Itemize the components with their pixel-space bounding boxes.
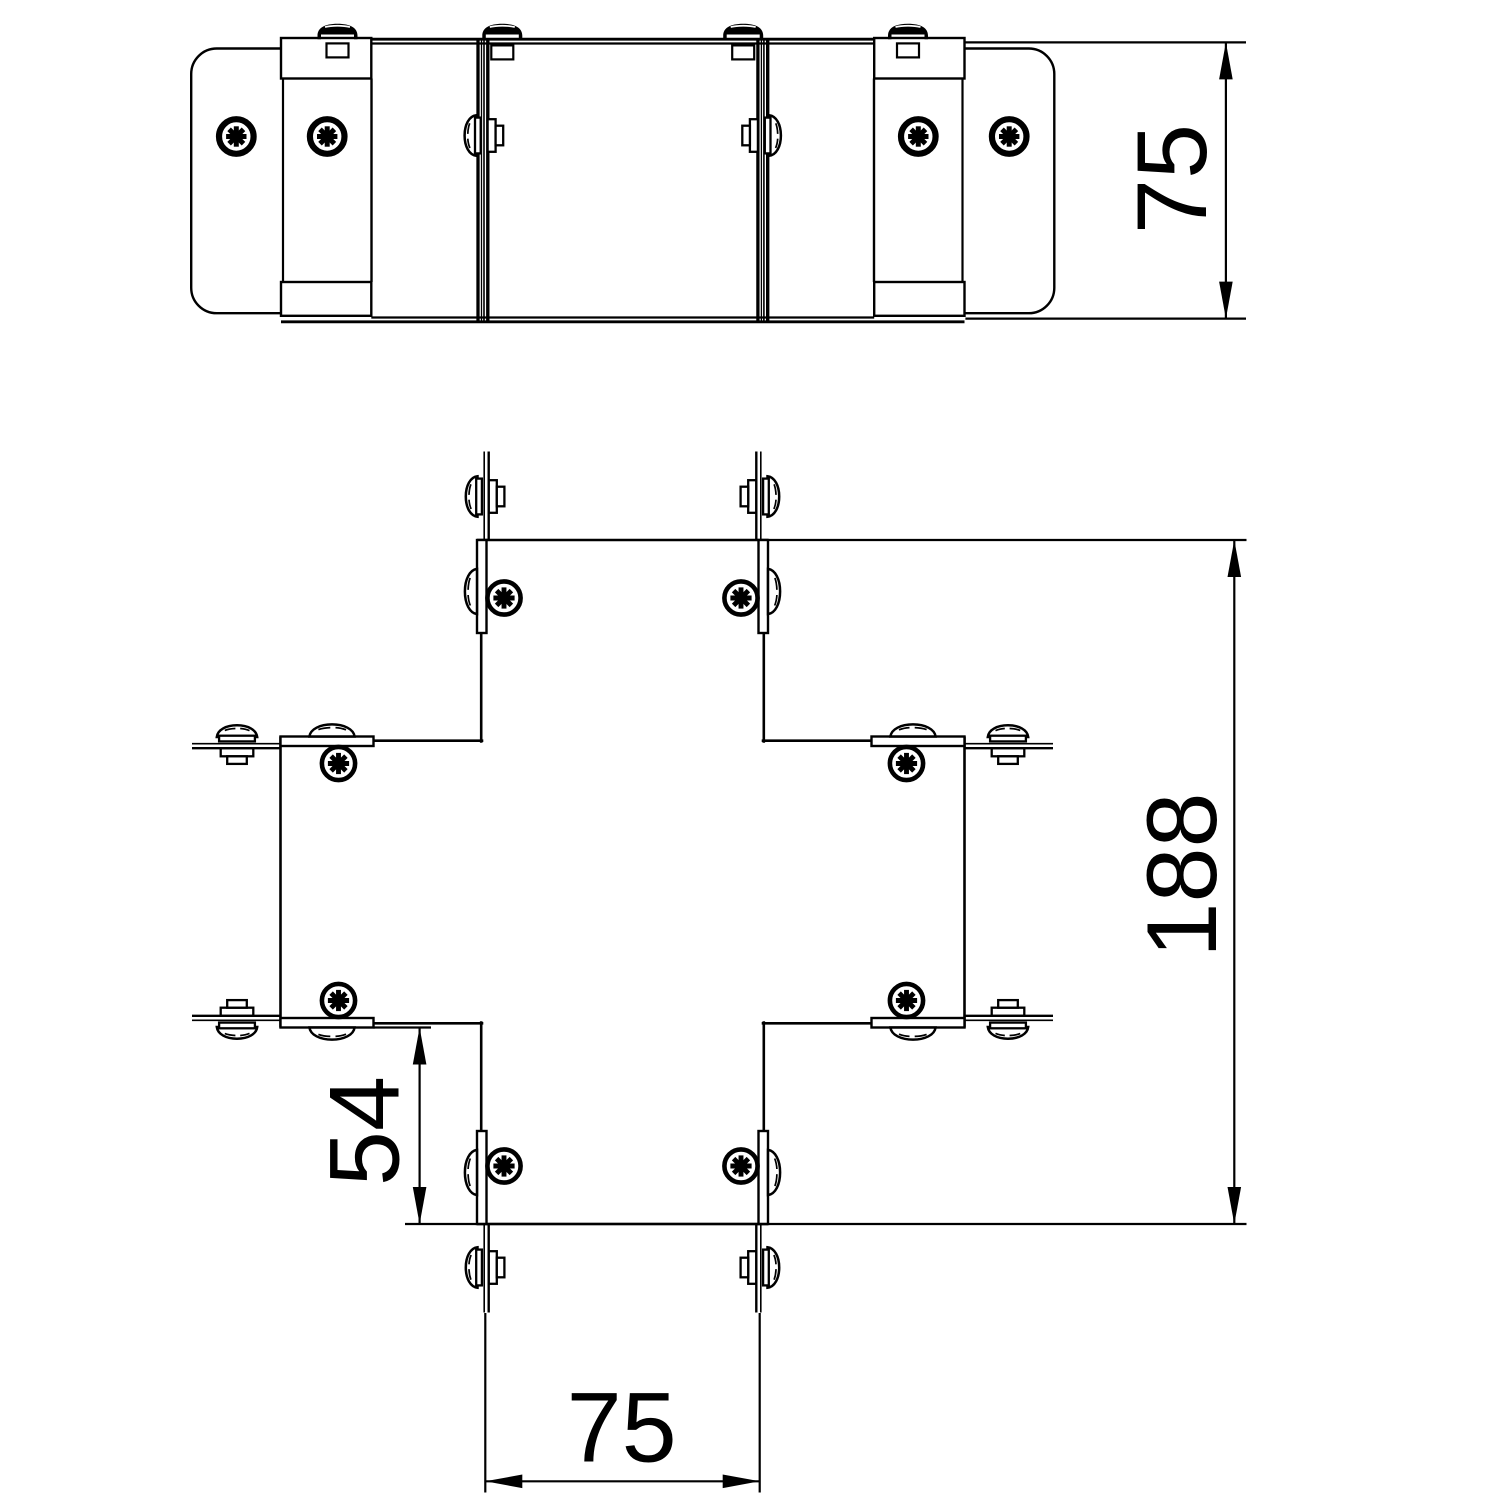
arm end edge <box>477 539 768 542</box>
left coupler top clamp tab <box>281 38 371 79</box>
dimension 75 (top view height): dimension line with arrows <box>1219 42 1233 318</box>
right coupler screw head <box>768 569 780 614</box>
top view: side elevation of cross piece <box>191 24 1246 322</box>
dimension 54: dimension line with arrows <box>413 1028 427 1225</box>
right wall side screw (head, washer, nut) <box>742 115 781 155</box>
left coupler bottom clamp tab <box>281 282 371 316</box>
body outline left stub <box>480 633 483 743</box>
right torx screw B <box>901 119 936 154</box>
left wall clamp screw (pan head, top) <box>482 24 522 60</box>
left end-cap cover (rounded) <box>191 49 282 314</box>
cover top edge (outer line) <box>281 38 965 41</box>
right rail screw <box>741 476 780 516</box>
right protruding side rail <box>756 452 761 542</box>
body outline right stub <box>762 633 765 743</box>
svg-text:188: 188 <box>1126 792 1237 957</box>
cover bottom edge (inner line) <box>371 316 874 318</box>
cover top edge (inner line) <box>371 42 874 44</box>
left wall side screw (head, washer, nut) <box>465 115 504 155</box>
dimension 54: extension line <box>374 1026 432 1028</box>
left coupler plate body <box>283 77 372 283</box>
right coupler plate body <box>874 77 963 283</box>
dimension 75 (bottom): dimension line with arrows <box>485 1475 759 1489</box>
dimension 75 (top view height): extension lines <box>965 41 1246 43</box>
bottom arm assembly <box>465 1021 780 1312</box>
left side-rail wall (edge view) <box>478 40 488 322</box>
left coupler fixing screw (pan head, top) <box>327 43 349 57</box>
right coupler bottom clamp tab <box>874 282 964 316</box>
left torx screw B <box>310 119 345 154</box>
right torx screw A <box>992 119 1027 154</box>
left rail screw <box>466 476 505 516</box>
top arm assembly <box>465 452 780 743</box>
right wall clamp screw (pan head, top) <box>723 24 763 60</box>
left torx screw A <box>219 119 254 154</box>
left protruding side rail <box>484 452 489 542</box>
right end-cap cover (rounded) <box>964 49 1055 314</box>
right coupler top clamp tab <box>874 38 964 79</box>
right coupler torx screw <box>724 581 757 614</box>
dimension 75 (bottom): extension lines <box>484 1313 486 1493</box>
svg-text:75: 75 <box>1116 124 1227 234</box>
right arm assembly <box>762 724 1053 1039</box>
right coupler fixing screw (pan head, top) <box>897 43 919 57</box>
right side-rail wall (edge view) <box>758 40 768 322</box>
dimension 188: dimension line with arrows <box>1228 540 1242 1224</box>
svg-text:75: 75 <box>567 1372 677 1483</box>
svg-text:54: 54 <box>308 1076 419 1186</box>
left coupler torx screw <box>487 581 520 614</box>
cover bottom edge (outer line) <box>281 320 965 323</box>
right coupler side plate <box>759 540 769 633</box>
left coupler screw head <box>465 569 477 614</box>
left coupler side plate <box>477 540 487 633</box>
left arm assembly <box>192 724 483 1039</box>
dimension 188: extension lines <box>768 539 1247 541</box>
